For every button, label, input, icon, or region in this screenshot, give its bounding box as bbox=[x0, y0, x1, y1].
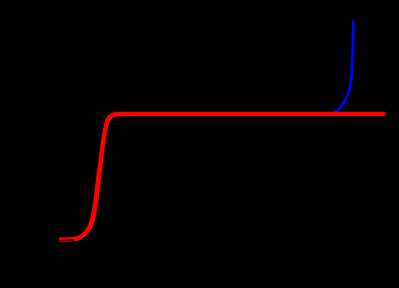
red curve upper strand bbox=[75, 113, 385, 238]
red curve thin lower tail bbox=[59, 240, 71, 242]
blue curve bbox=[332, 20, 353, 113]
red curve lower strand bbox=[75, 115, 386, 241]
red curve upper tail bbox=[59, 237, 76, 240]
